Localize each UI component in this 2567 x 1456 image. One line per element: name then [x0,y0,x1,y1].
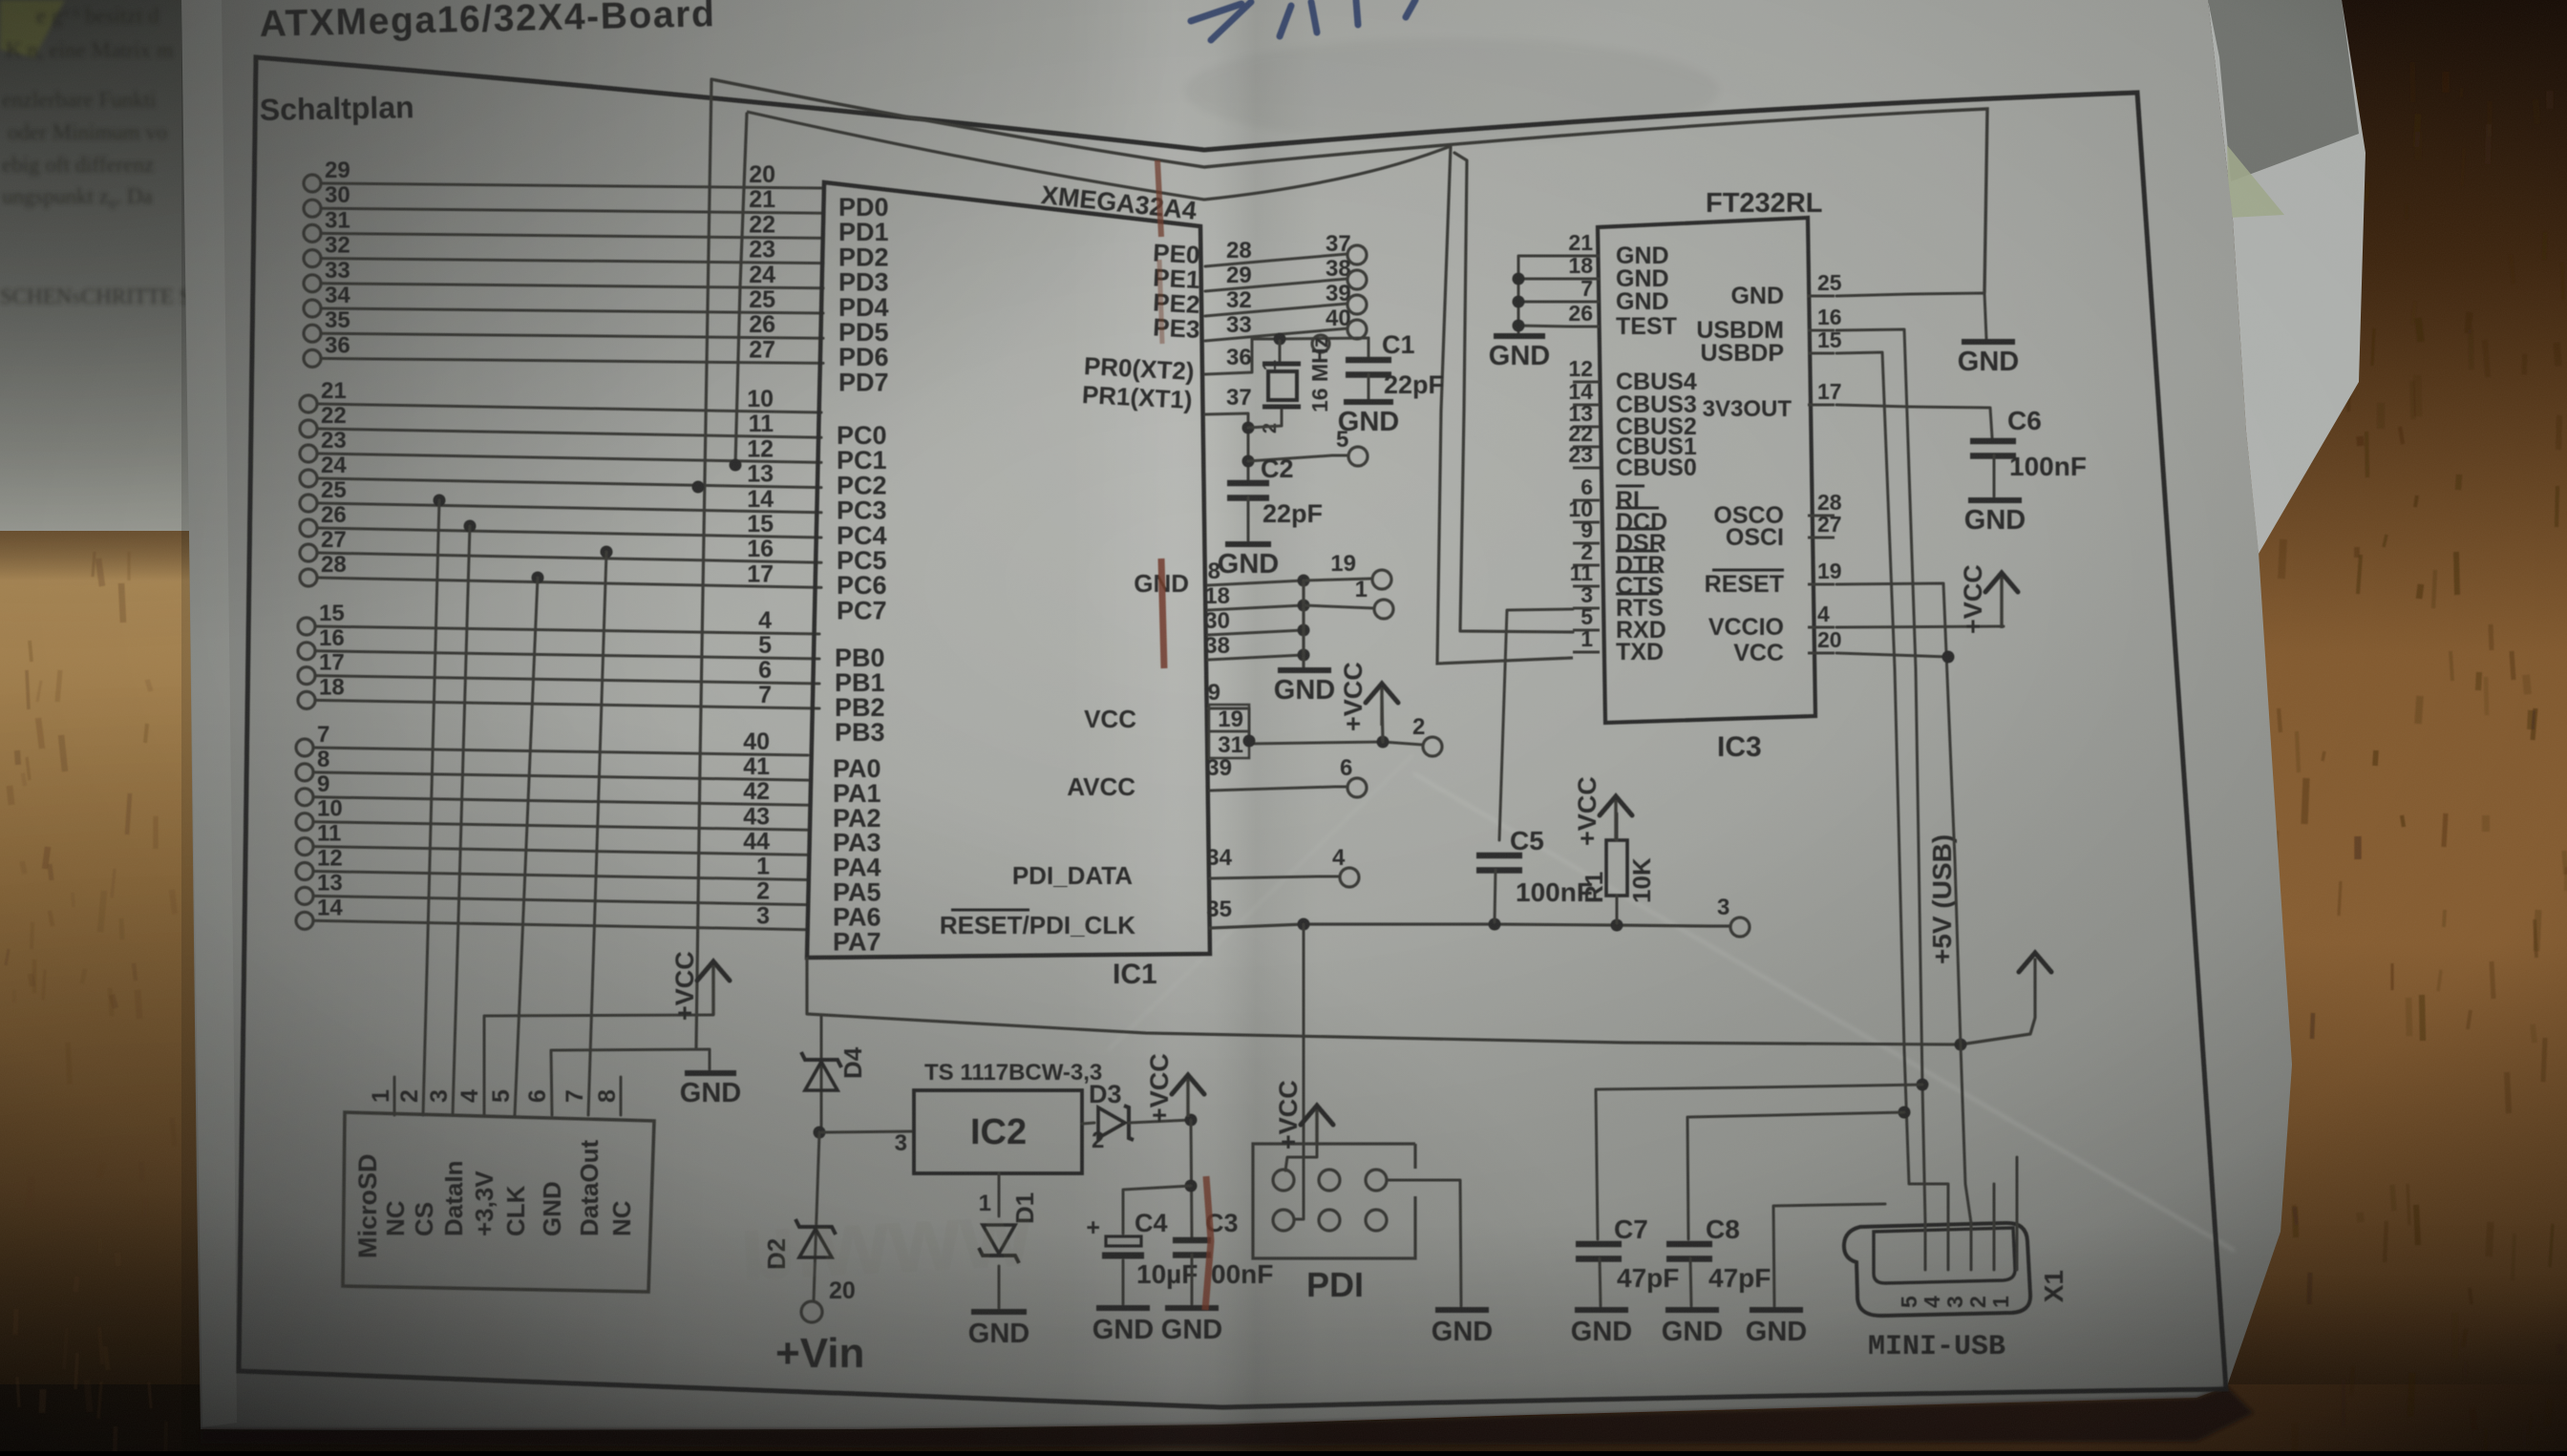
X1 pin stub 4 [1947,1223,1950,1270]
wire C1 to GND [1368,374,1370,400]
+VCC symbol PDI [1274,1080,1333,1150]
wire PDI_DATA [1210,876,1339,878]
wire TXD net [747,112,1573,664]
crease mark [1157,160,1211,1310]
pin 10 circle [296,813,313,831]
pin 35 circle [304,325,321,342]
wire C5 down [1495,870,1496,922]
wire C8 to GND [1690,1258,1691,1306]
capacitor C4 [1102,1236,1144,1256]
+Vin circle [801,1301,822,1322]
ground C3 [1161,1308,1222,1345]
junction C4 tap [1185,1180,1198,1192]
wire [423,500,439,1115]
wire VCC rail down [1191,1120,1192,1237]
PDI pin circle r1c2 [1319,1170,1340,1191]
pin 24 circle [300,470,317,487]
MicroSD pin 1 stub [393,1077,396,1115]
pin 34 circle [304,300,321,317]
crystal Q1 16MHz [1262,364,1301,407]
ground IC1 [1274,670,1335,706]
label RESET/PDI_CLK [940,910,1135,939]
wire [315,700,819,708]
ground C2 [1218,544,1279,580]
junction R1 [1611,919,1623,932]
ground FT232 [1489,336,1550,371]
junction C5 [1489,918,1501,931]
wire RESET rail [1836,583,1961,1045]
wire [1205,279,1347,291]
wire C6 down [1993,455,1996,496]
pin 5 circle [1348,447,1368,466]
wire [1205,254,1347,266]
wire to circle 1 [1304,605,1373,608]
junction row27 [601,546,613,559]
wire C7 to GND [1600,1258,1601,1306]
wire [321,183,823,188]
ground C7 [1571,1310,1632,1347]
wire FT232 GND25 [1836,293,1986,339]
junction GND 30 [1298,624,1310,637]
IC1 PE labels [1153,238,1201,344]
wire test26 [1518,326,1573,327]
pen marks [1191,0,1415,40]
pin 12 circle [296,863,313,880]
wire to pin5 circle [1248,455,1348,461]
PDI pin circle r1c1 [1273,1170,1294,1191]
wire [515,578,538,1115]
wire IC2 gnd pin [998,1173,1001,1216]
wire [315,676,819,684]
junction GND 8 [1298,575,1310,587]
wire [313,847,808,855]
junction row26 [464,520,477,533]
junction g7 [1513,296,1525,308]
X1 pin 2 wire [1993,1184,1996,1270]
wire spare [2016,1031,2018,1157]
wire USBDP rail [1836,352,1948,1223]
junction GND 38 [1298,649,1310,662]
junction g26 [1513,320,1525,332]
wire GND pin 8 [1208,580,1304,585]
wire to IC2 in [819,1131,912,1132]
wire [317,478,821,488]
wire [313,797,808,805]
junction +5V [1955,1039,1967,1051]
resistor R1 [1606,840,1627,896]
capacitor C3 plates [1173,1240,1211,1256]
wire RTS to C5 [1499,609,1573,840]
junction VCC out [1185,1114,1198,1127]
wire [313,772,808,780]
wire [315,626,819,634]
wire gnd7 [1518,301,1573,304]
test point circle [1312,335,1329,352]
junction Vin node [814,1127,826,1139]
pin 16 circle [298,643,315,660]
wire GND pin 18 [1208,605,1304,610]
wire [313,920,808,929]
pin 9 circle [296,789,313,806]
pin 37 circle [1347,245,1367,264]
junction row28 [532,572,544,584]
pin 21 circle [300,395,317,412]
wire USBDP to C8 [1687,1112,1904,1239]
wire VCCIO [1836,626,2004,627]
pin 32 circle [304,250,321,267]
wire [317,503,821,513]
border frame [239,57,2226,1407]
wire D4 branch [820,1015,823,1132]
capacitor C1 plates [1346,360,1391,375]
ground C4 [1093,1308,1154,1345]
wire PDI clk down [1295,924,1304,1219]
wire [321,358,823,363]
wire [313,748,808,755]
ground C8 [1662,1310,1723,1347]
junction VCC20 [1942,651,1955,664]
wire GND bus [1302,580,1305,668]
+VCC symbol FT232 [1959,564,2018,634]
wire 3V3OUT to C6 [1836,405,1992,437]
diode D4 [801,1052,841,1090]
pin 40 circle [1347,320,1367,339]
wire [313,896,808,904]
wire C1 top stub [1368,338,1370,360]
wire USB shield GND [1773,1204,1885,1306]
wire [321,233,823,238]
+5V arrow [2019,953,2051,972]
pin 15 circle [298,618,315,635]
PDI pin circle r1c3 [1366,1170,1387,1191]
wire [321,308,823,313]
connector MicroSD [343,1112,654,1292]
PDI pin circle r2c3 [1366,1210,1387,1231]
wire [317,404,821,412]
pin 14 circle [296,912,313,929]
wire RESET net [1210,924,1730,928]
wire gnd18 [1518,278,1573,281]
wire VCC20 [1836,653,1948,657]
wire AVCC [1210,787,1347,791]
pin 8 circle [296,764,313,781]
pin 31 boxed number [1209,731,1249,758]
X1 pin stub 5 [1924,1223,1927,1270]
junction USBDM [1917,1079,1929,1091]
diode D3 [1098,1106,1134,1140]
capacitor C2 plates [1227,483,1269,498]
wire [588,552,606,1115]
pin 30 circle [304,200,321,217]
junction PDI clk [1298,918,1310,931]
wire XT1 [1205,413,1248,481]
pin 19 circle [1372,570,1391,589]
IC U3 FT232RL box [1598,218,1815,723]
wire [317,454,821,462]
junction row25 [434,495,446,507]
wire [313,872,808,880]
pin 17 circle [298,667,315,685]
junction crystal pin2 [1242,422,1255,434]
X1 pin stub 3 [1970,1223,1973,1270]
pin 19 boxed number [1209,705,1249,732]
ground PDI [1432,1310,1493,1347]
pin 3 circle [1730,918,1750,937]
junction VCC [1243,735,1256,748]
wire R1 bottom [1616,896,1619,923]
wire [315,651,819,659]
wire [453,526,470,1115]
wire [321,208,823,213]
wire +5V rail [807,959,2035,1045]
ground USB [1746,1310,1807,1347]
wire PDI GND [1387,1180,1461,1306]
wire VCC to PDI [1285,1144,1317,1171]
wire USBDM rail [1836,329,1925,1223]
pin 1 circle [1374,600,1393,619]
+VCC symbol near MicroSD [670,951,730,1021]
IC3 right pins [1696,270,1841,666]
PDI pin circle r2c2 [1319,1210,1340,1231]
pin 31 circle [304,224,321,242]
wire VCC arrow stem [1382,697,1383,742]
junction VCC arrow [1377,736,1390,749]
connector X1 MINI-USB [1844,1223,2030,1316]
wire VCC to circle 2 [1249,708,1422,745]
wire USBDM to C7 [1596,1085,1922,1239]
pin 4 circle [1340,868,1359,887]
wire IC2 out [1082,1123,1094,1124]
pin 29 circle [304,175,321,192]
diode D2 [796,1219,836,1257]
pin 36 circle [304,349,321,367]
pin 38 circle [1347,270,1367,289]
wire C4 to GND [1122,1260,1125,1304]
pin 7 circle [296,739,313,756]
wire R1 top [1616,813,1619,840]
pin 39 circle [1347,295,1367,314]
wire D1 to GND [998,1266,1001,1308]
wire RXD net [1454,153,1573,632]
wire XT2 to C1 [1205,338,1368,374]
+VCC symbol R1 [1573,776,1632,846]
pin 25 circle [300,495,317,512]
wire [321,284,823,288]
pin 18 circle [298,691,315,708]
junction PC3 [692,481,705,494]
pin 22 circle [300,420,317,437]
diode D1 [979,1225,1019,1263]
wire C3 to GND [1191,1255,1194,1304]
wire [1205,304,1347,316]
wire FT232 gnd bus [1518,256,1573,332]
X1 pin 1 wire [2016,1157,2019,1270]
pin 2 circle [1423,737,1442,756]
ground C6 [1964,500,2026,536]
wire VCC 9 [1208,707,1249,710]
MicroSD pin 8 stub [620,1077,623,1115]
wire PC2 drop [735,114,747,465]
pin 26 circle [300,519,317,537]
wire [321,333,823,338]
ground top right [1958,342,2019,377]
wire VBUS down [1961,1045,1971,1223]
ground MicroSD [680,1073,741,1108]
PDI pin circle r2c1 [1273,1210,1294,1231]
pin 13 circle [296,887,313,904]
capacitor C6 plates [1970,441,2016,456]
ground C1 [1338,402,1399,437]
wire to +Vin [814,1132,819,1300]
junction g18 [1513,273,1525,285]
ground D1 [968,1312,1029,1349]
wire [1205,328,1347,341]
pin 28 circle [300,569,317,586]
capacitor C8 plates [1666,1244,1712,1259]
junction crystal pin1 [1274,333,1286,346]
capacitor C7 plates [1576,1244,1622,1259]
wire [317,429,821,437]
IC3 left pins [1568,230,1696,665]
watermark [737,1183,1035,1300]
wire crystal pin1 [1279,341,1282,361]
pin 23 circle [300,445,317,462]
junction C2 [1242,455,1255,468]
wire GND left drop [696,79,711,1047]
junction USBDP [1899,1107,1911,1119]
pin 27 circle [300,544,317,561]
wire [321,259,823,264]
IC U1 XMEGA32A4 box [807,182,1210,958]
wire +3,3V to VCC [484,1015,713,1115]
wire to C4 [1123,1186,1191,1234]
wire [313,822,808,831]
wire crystal pin2 [1248,410,1282,428]
wire GND pin 30 [1208,630,1304,635]
+VCC symbol IC1 [1339,662,1398,731]
wire GND pin 38 [1208,655,1304,660]
pin 6 circle [1347,778,1367,797]
connector PDI box [1253,1144,1415,1258]
wire C2 to GND [1247,497,1250,540]
wire to circle 19 [1304,579,1371,580]
pin 11 circle [296,838,313,855]
IC1 port labels [833,193,889,956]
wire GND top bus [711,79,1987,293]
wire [317,528,821,538]
+VCC symbol IC2 [1145,1053,1204,1123]
junction GND 18 [1298,600,1310,612]
capacitor C5 plates [1476,855,1522,871]
junction PC2 [730,459,742,472]
wire D3 to VCC [1129,1120,1191,1123]
pin 33 circle [304,275,321,292]
wire [317,578,821,587]
wire MicroSD GND [551,1049,710,1115]
wire [317,553,821,562]
IC U2 TS1117 box [914,1090,1082,1173]
